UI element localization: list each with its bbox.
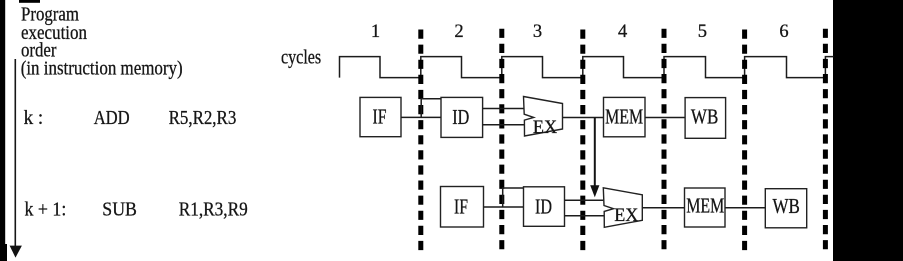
svg-text:R1,R3,R9: R1,R3,R9 [179, 199, 248, 221]
scan artifact: top-left black tick [19, 0, 40, 3]
svg-text:ADD: ADD [94, 107, 130, 129]
program-order arrow (down, far left) [14, 59, 16, 247]
wire EX to MEM (row 1) [563, 117, 604, 119]
stage box IF (row 1) [360, 97, 401, 136]
scan artifact: right black block [833, 0, 903, 261]
forwarding arrow from EX/MEM down to EX (row 2) [590, 118, 599, 198]
wire ID to EX lower (row 1) [483, 124, 524, 126]
svg-text:5: 5 [698, 22, 707, 42]
stage box WB (row 2) [765, 189, 806, 228]
scan artifact: bottom-left black widening [0, 244, 7, 261]
cycle boundary dashed line 4 [662, 29, 667, 251]
svg-text:3: 3 [533, 22, 542, 42]
ALU shape EX (row 2) [603, 188, 642, 228]
wire IF to ID (row 1) [401, 116, 441, 118]
stage box ID (row 2) [524, 187, 565, 227]
cycle boundary dashed line 5 [742, 30, 747, 252]
svg-text:k + 1:: k + 1: [25, 199, 67, 221]
svg-text:4: 4 [618, 22, 627, 42]
svg-text:WB: WB [691, 105, 718, 129]
clock-edge step into ID (row 1) [421, 99, 441, 118]
svg-text:ID: ID [452, 105, 469, 129]
svg-text:(in instruction memory): (in instruction memory) [21, 57, 183, 79]
svg-text:EX: EX [614, 205, 638, 226]
svg-text:R5,R2,R3: R5,R2,R3 [169, 107, 237, 129]
cycle boundary dashed line 1 [418, 30, 423, 252]
stage box ID (row 1) [441, 97, 483, 137]
scan artifact: left black edge bar [0, 0, 5, 261]
svg-text:k :: k : [24, 107, 44, 129]
cycle boundary dashed line 2 [499, 29, 504, 251]
svg-text:IF: IF [454, 194, 468, 218]
ALU shape EX (row 1) [524, 97, 563, 138]
stage box MEM (row 1) [604, 97, 646, 136]
svg-text:cycles: cycles [281, 46, 321, 68]
stage box MEM (row 2) [685, 188, 726, 227]
clock waveform [340, 57, 834, 78]
svg-text:6: 6 [779, 22, 788, 42]
cycle boundary dashed line 6 [823, 29, 828, 251]
svg-text:EX: EX [533, 117, 557, 138]
svg-text:ID: ID [535, 194, 552, 218]
wire IF to ID (row 2) [484, 206, 524, 208]
wire ID to EX upper (row 1) [483, 108, 524, 110]
svg-text:SUB: SUB [102, 198, 137, 220]
clock-edge step into ID (row 2) [503, 188, 524, 207]
svg-text:MEM: MEM [605, 105, 643, 129]
stage box WB (row 1) [685, 98, 726, 139]
svg-text:1: 1 [371, 22, 380, 42]
wire MEM to WB (row 2) [725, 207, 765, 209]
stage box IF (row 2) [441, 187, 484, 228]
svg-text:2: 2 [454, 22, 463, 42]
svg-text:IF: IF [373, 105, 387, 129]
cycle boundary dashed line 3 [580, 30, 585, 252]
svg-text:WB: WB [773, 194, 800, 218]
wire ID to EX lower (row 2) [565, 215, 605, 217]
wire MEM to WB (row 1) [645, 117, 685, 119]
svg-text:MEM: MEM [686, 194, 724, 218]
wire EX to MEM (row 2) [642, 207, 684, 209]
wire ID to EX upper (row 2) [565, 199, 604, 201]
